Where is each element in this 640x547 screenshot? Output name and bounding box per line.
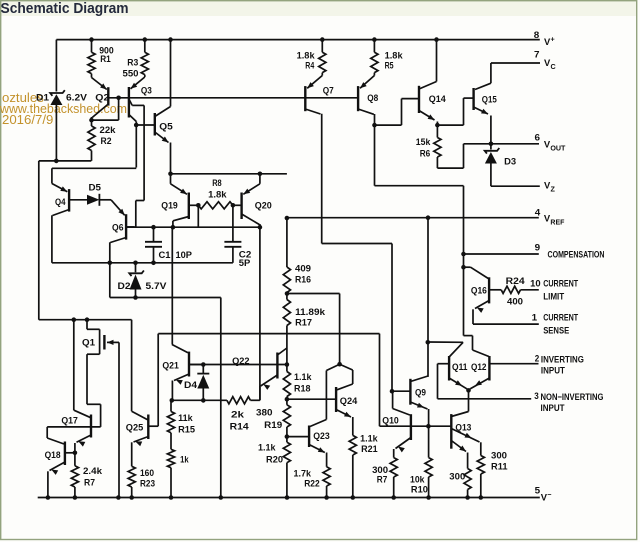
wire R14 row xyxy=(172,399,227,401)
svg-text:Schematic Diagram: Schematic Diagram xyxy=(1,0,129,17)
svg-text:REF: REF xyxy=(550,218,565,227)
transistor Q5 xyxy=(154,113,156,136)
wire reference node row xyxy=(171,173,287,175)
node V- rail junction x=326.6 xyxy=(324,495,329,500)
svg-text:22k: 22k xyxy=(100,124,117,135)
node Q9 base junction xyxy=(390,389,395,394)
svg-text:R10: R10 xyxy=(411,484,428,495)
node V- rail junction x=74.9 xyxy=(73,495,78,500)
node V- rail junction x=220.8 xyxy=(219,495,224,500)
svg-text:2016/7/9: 2016/7/9 xyxy=(2,112,53,127)
wire Q17 emitter column xyxy=(73,320,75,411)
svg-text:INPUT: INPUT xyxy=(541,402,565,413)
node Q11/Q12 emitter junction xyxy=(466,388,471,393)
wire Q25 collector column xyxy=(131,320,133,412)
wire R5 top lead xyxy=(373,40,375,53)
resistor R5 xyxy=(371,52,378,72)
svg-text:5P: 5P xyxy=(239,257,251,268)
node Q10 base / R10 junction xyxy=(426,424,431,429)
svg-text:R8: R8 xyxy=(212,177,222,188)
svg-text:380: 380 xyxy=(256,407,273,418)
wire Q8 collector drop xyxy=(374,125,376,186)
resistor R18 xyxy=(286,365,288,372)
svg-text:Q14: Q14 xyxy=(429,93,447,104)
node Q14 emitter xyxy=(435,123,440,128)
node rail R3 xyxy=(143,37,148,42)
svg-text:R23: R23 xyxy=(140,477,155,488)
wire base bus Q2-Q3-Q7-Q8 xyxy=(108,97,358,99)
wire Q1 gate row xyxy=(39,319,132,321)
resistor R7 (2.4k) xyxy=(74,453,76,466)
svg-text:R21: R21 xyxy=(361,443,378,454)
node V- rail junction x=480.8 xyxy=(479,495,484,500)
svg-text:R16: R16 xyxy=(295,274,311,285)
wire left bias row xyxy=(39,160,92,162)
capacitor C1 xyxy=(153,227,155,242)
svg-text:R20: R20 xyxy=(266,453,283,464)
wire Q3 collector2 to Q6 base net xyxy=(132,104,144,106)
node VREF Q11 branch xyxy=(426,215,431,220)
svg-text:Q23: Q23 xyxy=(313,430,330,441)
svg-text:409: 409 xyxy=(295,263,311,274)
wire Q11 base drop xyxy=(437,364,439,399)
wire Q7 collector column xyxy=(321,114,323,244)
resistor R14 xyxy=(227,397,251,404)
node V- rail junction x=428.6 xyxy=(426,495,431,500)
svg-text:Q22: Q22 xyxy=(232,355,250,366)
resistor R22 xyxy=(323,467,330,486)
svg-text:7: 7 xyxy=(534,49,540,60)
node V- rail junction x=352.8 xyxy=(351,495,356,500)
resistor R1 xyxy=(88,52,95,73)
svg-text:Q10: Q10 xyxy=(382,414,399,425)
wire Q13 base row xyxy=(428,425,451,427)
diode D5 xyxy=(87,195,99,205)
node Q11 collector junction xyxy=(426,340,431,345)
wire D1 column xyxy=(55,40,57,92)
node V- rail junction x=467.6 xyxy=(465,495,470,500)
svg-text:OUT: OUT xyxy=(550,144,566,153)
node V_REF wire left xyxy=(168,172,173,177)
node Q19 collector junction xyxy=(171,225,176,230)
svg-text:CURRENT: CURRENT xyxy=(543,278,578,289)
svg-text:6: 6 xyxy=(535,132,541,143)
svg-text:R2: R2 xyxy=(101,135,112,146)
transistor Q14 xyxy=(418,86,420,113)
wire Q23 collector branch xyxy=(326,365,338,371)
svg-text:Q24: Q24 xyxy=(340,395,358,406)
transistor Q13 xyxy=(450,414,452,449)
node Q17 collector / R7 top xyxy=(73,451,78,456)
node Q20 collector junction xyxy=(258,225,263,230)
svg-text:R4: R4 xyxy=(305,59,315,70)
transistor Q15 xyxy=(472,88,474,110)
wire Q2 base-collector tie xyxy=(92,119,119,121)
svg-text:300: 300 xyxy=(449,471,465,482)
node Q21 emitter bottom xyxy=(170,398,175,403)
svg-text:INVERTING: INVERTING xyxy=(541,354,584,365)
resistor R8 xyxy=(198,202,233,209)
wire R3 top lead xyxy=(144,40,146,53)
svg-text:1: 1 xyxy=(532,312,538,323)
node rail R4 xyxy=(320,37,325,42)
resistor R16 xyxy=(283,267,290,293)
node Q20 emitter top xyxy=(258,172,263,177)
svg-text:9: 9 xyxy=(535,242,541,253)
wire D5 to Q6 emitter xyxy=(99,199,111,201)
node R8 right xyxy=(231,203,236,208)
svg-text:Q9: Q9 xyxy=(415,386,426,397)
svg-text:R17: R17 xyxy=(295,317,312,328)
node rail R1 xyxy=(89,37,94,42)
svg-text:550: 550 xyxy=(123,67,139,78)
resistor R3 xyxy=(141,52,148,74)
transistor Q10 xyxy=(410,414,412,440)
node D2 top xyxy=(133,261,138,266)
transistor Q1 (FET) xyxy=(86,320,88,330)
svg-text:R7: R7 xyxy=(84,477,95,488)
transistor Q2 xyxy=(107,87,109,105)
transistor Q16 xyxy=(488,277,490,303)
wire bias net row xyxy=(158,333,379,335)
node V- rail junction x=131.7 xyxy=(129,495,134,500)
zener D3 xyxy=(490,144,492,150)
wire Q21/Q22 base row xyxy=(189,364,287,366)
svg-text:Q19: Q19 xyxy=(161,200,178,211)
svg-text:COMPENSATION: COMPENSATION xyxy=(548,249,605,260)
svg-text:1k: 1k xyxy=(180,453,189,464)
resistor R23 xyxy=(128,466,135,487)
svg-text:2: 2 xyxy=(535,353,540,364)
svg-text:C1: C1 xyxy=(159,249,171,260)
wire D2 anode row xyxy=(110,297,221,299)
svg-text:R14: R14 xyxy=(230,421,250,432)
node Q1 row right xyxy=(85,317,90,322)
wire to Q4 emitter xyxy=(52,167,136,169)
node C1 top junction xyxy=(151,225,156,230)
wire R16 junction to Q24 net xyxy=(287,293,340,295)
svg-text:1.8k: 1.8k xyxy=(208,188,227,199)
wire left rail xyxy=(38,161,40,320)
node C1 bottom xyxy=(151,261,156,266)
svg-text:−: − xyxy=(547,490,551,499)
transistor Q17 xyxy=(90,415,92,438)
transistor Q24 xyxy=(335,387,337,412)
svg-text:1.1k: 1.1k xyxy=(294,371,312,382)
node V- rail junction x=47.9 xyxy=(46,495,51,500)
svg-text:NON−INVERTING: NON−INVERTING xyxy=(541,391,604,402)
node compensation junction xyxy=(461,252,466,257)
wire Q6 base row xyxy=(126,226,260,228)
svg-text:2k: 2k xyxy=(231,409,245,420)
transistor Q12 xyxy=(488,356,490,381)
transistor Q7 xyxy=(304,86,306,111)
resistor R20 xyxy=(283,442,290,463)
wire Q14 base link xyxy=(375,124,402,126)
node V- rail junction x=287.0 xyxy=(285,495,290,500)
svg-text:4: 4 xyxy=(535,207,541,218)
wire Q11 collector link xyxy=(428,341,463,343)
node D2 anode xyxy=(133,295,138,300)
pin 1 wire xyxy=(473,323,539,325)
transistor Q19 xyxy=(188,193,190,220)
svg-text:Q2: Q2 xyxy=(95,92,109,103)
svg-text:R11: R11 xyxy=(491,461,508,472)
svg-text:8: 8 xyxy=(534,29,540,40)
node base row right xyxy=(285,362,290,367)
svg-text:R19: R19 xyxy=(264,419,282,430)
resistor R6 xyxy=(436,125,438,137)
resistor R21 xyxy=(349,435,356,455)
pin 9 wire xyxy=(464,253,539,255)
node D1 anode junction xyxy=(54,159,59,164)
svg-text:Q20: Q20 xyxy=(255,200,272,211)
node V- rail junction x=393.7 xyxy=(391,495,396,500)
wire Q25 base column xyxy=(157,334,159,427)
svg-text:R3: R3 xyxy=(127,57,138,68)
svg-text:LIMIT: LIMIT xyxy=(543,291,564,302)
transistor Q20 xyxy=(240,193,242,220)
svg-text:R24: R24 xyxy=(506,275,526,286)
svg-text:R22: R22 xyxy=(304,477,320,488)
svg-text:Q12: Q12 xyxy=(471,361,487,372)
svg-text:R1: R1 xyxy=(100,53,111,64)
svg-text:10P: 10P xyxy=(176,249,193,260)
node rail Q5 xyxy=(168,37,173,42)
transistor Q11 xyxy=(448,356,450,381)
transistor Q23 xyxy=(308,426,310,448)
svg-text:D3: D3 xyxy=(504,156,516,167)
svg-text:5.7V: 5.7V xyxy=(146,280,168,291)
transistor Q22 xyxy=(276,353,278,379)
svg-text:Q3: Q3 xyxy=(141,85,152,96)
wire Q12 collector link xyxy=(464,335,473,337)
svg-text:Q13: Q13 xyxy=(455,421,471,432)
resistor R4 xyxy=(319,52,326,72)
bottom V- rail xyxy=(38,497,540,499)
diode D4 xyxy=(202,365,204,374)
resistor 300 (Q13 lower emitter) xyxy=(464,469,471,490)
resistor R17 xyxy=(286,294,288,300)
svg-text:Z: Z xyxy=(551,185,556,194)
wire R4 top lead xyxy=(321,40,323,53)
node D4 bottom xyxy=(201,398,206,403)
node Q8 collector xyxy=(372,123,377,128)
node D4 top xyxy=(201,362,206,367)
resistor R2 xyxy=(91,120,93,126)
svg-text:Q7: Q7 xyxy=(323,85,334,96)
svg-text:C: C xyxy=(551,62,556,71)
wire bias column to base net xyxy=(220,298,222,498)
resistor R15 xyxy=(170,400,172,411)
resistor R24 xyxy=(501,286,520,293)
transistor Q3 xyxy=(128,87,130,118)
svg-text:SENSE: SENSE xyxy=(543,325,569,336)
node Q5 base junction xyxy=(134,123,139,128)
svg-text:Q5: Q5 xyxy=(159,121,173,132)
svg-text:1.1k: 1.1k xyxy=(258,442,276,453)
resistor R7 (300) xyxy=(390,458,397,477)
wire VREF drop to Q9 xyxy=(427,218,429,377)
node Vout junction xyxy=(489,142,494,147)
svg-text:+: + xyxy=(551,35,555,44)
node R18/R19 junction xyxy=(285,397,290,402)
wire R8 left drop xyxy=(197,205,199,227)
svg-text:3: 3 xyxy=(534,390,539,401)
svg-text:R18: R18 xyxy=(294,383,311,394)
svg-text:5: 5 xyxy=(535,485,541,496)
svg-text:Q8: Q8 xyxy=(367,92,378,103)
pin VZ wire xyxy=(491,185,540,187)
svg-text:2.4k: 2.4k xyxy=(83,465,103,476)
resistor 1k xyxy=(170,433,172,450)
node Q24 collector top xyxy=(337,362,342,367)
svg-text:Q4: Q4 xyxy=(55,196,66,207)
pin 3 wire xyxy=(438,398,532,400)
wire R1 top lead xyxy=(91,40,93,53)
svg-text:R6: R6 xyxy=(420,148,431,159)
svg-text:Q17: Q17 xyxy=(61,414,78,425)
svg-text:Q1: Q1 xyxy=(82,336,95,347)
svg-text:R15: R15 xyxy=(178,424,195,435)
node Q1 row left xyxy=(72,317,77,322)
resistor R11 xyxy=(477,456,484,475)
wire Q10 collector link xyxy=(392,391,394,408)
node V- rail junction x=118.4 xyxy=(116,495,121,500)
resistor R10 xyxy=(428,426,430,457)
node Q16 collector junction xyxy=(461,265,466,270)
svg-text:Q6: Q6 xyxy=(112,221,124,232)
svg-text:D2: D2 xyxy=(118,280,131,291)
wire R16 feed xyxy=(286,218,288,267)
wire V+ rail xyxy=(56,39,539,41)
zener D2 xyxy=(135,263,137,273)
transistor Q8 xyxy=(357,86,359,111)
node V- rail junction x=171.0 xyxy=(169,495,174,500)
svg-text:15k: 15k xyxy=(416,136,431,147)
svg-text:Q16: Q16 xyxy=(471,285,487,296)
wire Q1 gate return to V- rail xyxy=(118,342,120,497)
pin 4 wire xyxy=(287,217,539,219)
svg-text:11k: 11k xyxy=(178,412,193,423)
svg-text:Q25: Q25 xyxy=(126,421,144,432)
svg-text:D5: D5 xyxy=(89,181,102,192)
transistor Q9 xyxy=(409,379,411,405)
svg-text:Q11: Q11 xyxy=(452,361,468,372)
transistor Q18 xyxy=(64,442,66,466)
wire Q15 base link xyxy=(437,124,463,126)
svg-text:Q21: Q21 xyxy=(162,359,179,370)
svg-text:6.2V: 6.2V xyxy=(66,92,88,103)
node R19/R20 junction xyxy=(285,434,290,439)
node R8 left xyxy=(196,203,201,208)
transistor Q4 xyxy=(68,189,70,212)
svg-text:CURRENT: CURRENT xyxy=(543,312,578,323)
svg-text:11.89k: 11.89k xyxy=(295,306,326,317)
node Q2 base junction xyxy=(116,96,121,101)
zener D1 xyxy=(50,90,65,96)
node rail Q14 xyxy=(434,37,439,42)
svg-text:300: 300 xyxy=(491,450,507,461)
node D2 loop left xyxy=(108,261,113,266)
transistor Q6 xyxy=(125,214,127,239)
resistor R19 xyxy=(283,405,290,427)
svg-text:1.1k: 1.1k xyxy=(360,433,378,444)
node VREF corner xyxy=(285,216,290,221)
pin 6 wire xyxy=(464,143,540,145)
svg-text:400: 400 xyxy=(507,295,523,306)
wire Q20 collector column xyxy=(259,227,261,400)
node Q2 collector junction xyxy=(89,118,94,123)
svg-text:INPUT: INPUT xyxy=(541,365,565,376)
svg-text:D1: D1 xyxy=(36,92,49,103)
capacitor C2 xyxy=(232,205,234,242)
svg-text:D4: D4 xyxy=(184,379,198,390)
svg-text:Q18: Q18 xyxy=(45,449,61,460)
svg-text:R7: R7 xyxy=(377,474,388,485)
transistor Q25 xyxy=(147,415,149,440)
wire zener bias row xyxy=(52,262,233,264)
svg-text:10: 10 xyxy=(530,278,541,289)
transistor Q21 xyxy=(188,352,190,377)
wire Q21 collector column xyxy=(171,227,173,344)
svg-text:Q15: Q15 xyxy=(482,94,497,105)
node R16/R17 junction xyxy=(285,291,290,296)
node rail R5 xyxy=(372,37,377,42)
svg-text:R5: R5 xyxy=(385,59,394,70)
wire Q3 collector1 / Q5 base column xyxy=(135,122,137,168)
pin 7 wire xyxy=(491,62,540,64)
